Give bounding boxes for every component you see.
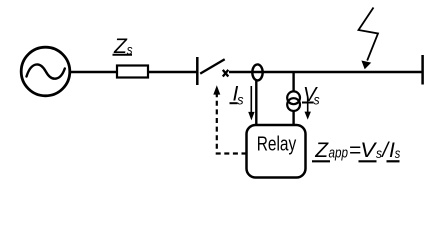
svg-text:app: app <box>329 145 349 162</box>
dashed trip wire <box>217 93 247 154</box>
svg-text:Relay: Relay <box>257 134 297 156</box>
VT lower winding <box>287 98 300 111</box>
svg-text:Z: Z <box>314 139 329 162</box>
label Is <box>230 83 244 108</box>
VT lead to relay <box>292 111 294 125</box>
svg-text:s: s <box>314 91 320 107</box>
generator G <box>21 47 70 96</box>
breaker pole tick <box>196 57 199 85</box>
impedance Zs box <box>117 66 148 78</box>
wire generator to Zs <box>70 71 117 74</box>
VT (voltage transformer) upper winding <box>287 91 300 104</box>
Vs voltage arrow <box>305 97 311 120</box>
right bus end tick <box>421 55 424 85</box>
label Vs <box>302 84 320 107</box>
svg-text:s: s <box>395 145 401 161</box>
CT secondary lead to relay <box>255 80 257 125</box>
trip arrow head <box>213 85 220 94</box>
Is current arrow <box>248 86 254 120</box>
VT tap wire <box>292 72 294 92</box>
wire x to right bus end <box>229 71 423 74</box>
svg-text:V: V <box>360 139 377 162</box>
svg-text:s: s <box>237 91 243 107</box>
relay box <box>247 125 306 178</box>
svg-text:s: s <box>376 145 382 161</box>
CT (current transformer) <box>252 64 262 80</box>
fault lightning bolt <box>359 8 379 70</box>
label Zs <box>113 35 133 58</box>
trip point x <box>223 70 229 77</box>
breaker blade (open switch) <box>200 59 225 73</box>
svg-text:=: = <box>349 139 361 162</box>
wire Zs to breaker <box>148 71 197 74</box>
equation Zapp = Vs / Is <box>312 139 400 162</box>
